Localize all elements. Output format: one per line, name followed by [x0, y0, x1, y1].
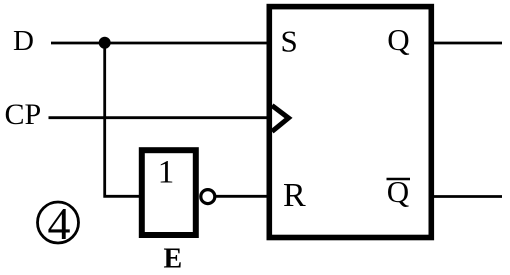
wire CP to clock input — [49, 116, 270, 119]
svg-text:4: 4 — [48, 198, 71, 249]
wire junction down to inverter — [105, 43, 139, 197]
svg-text:E: E — [164, 244, 183, 275]
clock edge triangle — [272, 106, 289, 132]
svg-text:D: D — [13, 25, 34, 57]
svg-text:R: R — [283, 177, 306, 214]
figure number circle — [38, 202, 79, 243]
svg-text:CP: CP — [5, 98, 42, 131]
wire Q output — [434, 42, 502, 45]
junction dot on D wire — [99, 37, 111, 49]
flip-flop U1 box — [269, 7, 431, 238]
wire D to S — [51, 42, 269, 45]
Qbar overline — [387, 178, 411, 181]
inverter gate E box — [142, 150, 196, 235]
svg-text:Q: Q — [387, 22, 409, 57]
wire inverter to R — [215, 195, 269, 198]
svg-text:S: S — [281, 24, 298, 59]
svg-text:1: 1 — [158, 155, 175, 191]
inverter output bubble — [201, 190, 215, 204]
wire Qbar output — [434, 195, 502, 198]
